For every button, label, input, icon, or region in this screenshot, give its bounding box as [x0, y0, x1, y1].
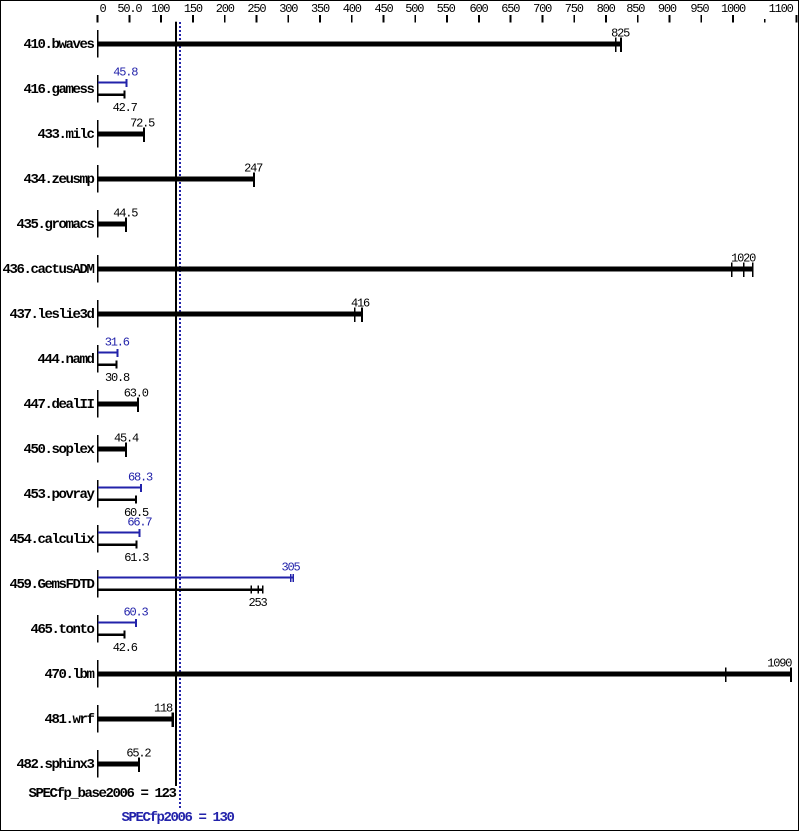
svg-text:450.soplex: 450.soplex: [23, 442, 95, 458]
svg-text:68.3: 68.3: [128, 471, 153, 485]
svg-text:470.lbm: 470.lbm: [44, 667, 94, 683]
svg-text:1100: 1100: [769, 2, 794, 16]
svg-text:650: 650: [501, 2, 520, 16]
svg-text:416.gamess: 416.gamess: [23, 82, 94, 98]
svg-text:800: 800: [597, 2, 616, 16]
row 435.gromacs: [97, 210, 127, 238]
svg-text:1020: 1020: [731, 251, 756, 265]
svg-text:550: 550: [437, 2, 456, 16]
svg-text:436.cactusADM: 436.cactusADM: [2, 262, 94, 278]
row 453.povray: [97, 480, 142, 508]
svg-text:100: 100: [151, 2, 170, 16]
svg-text:416: 416: [351, 296, 370, 310]
row 410.bwaves: [97, 30, 622, 58]
svg-text:200: 200: [216, 2, 235, 16]
svg-text:50.0: 50.0: [117, 2, 142, 16]
row 454.calculix: [97, 525, 141, 553]
svg-text:450: 450: [374, 2, 393, 16]
row 444.namd: [97, 345, 119, 373]
row 433.milc: [97, 120, 145, 148]
svg-text:481.wrf: 481.wrf: [44, 712, 94, 728]
svg-text:900: 900: [658, 2, 677, 16]
svg-text:453.povray: 453.povray: [23, 487, 95, 503]
svg-text:61.3: 61.3: [124, 551, 149, 565]
row 470.lbm: [97, 660, 792, 688]
svg-text:444.namd: 444.namd: [37, 352, 94, 368]
row 447.dealII: [97, 390, 139, 418]
svg-text:825: 825: [611, 26, 630, 40]
svg-text:700: 700: [533, 2, 552, 16]
svg-text:253: 253: [248, 596, 267, 610]
svg-text:350: 350: [311, 2, 330, 16]
row 436.cactusADM: [97, 255, 754, 283]
svg-text:434.zeusmp: 434.zeusmp: [23, 172, 94, 188]
base median reference line (123): [175, 22, 177, 786]
svg-text:30.8: 30.8: [105, 371, 130, 385]
svg-text:SPECfp_base2006 = 123: SPECfp_base2006 = 123: [28, 786, 176, 802]
svg-text:42.6: 42.6: [113, 641, 138, 655]
svg-text:459.GemsFDTD: 459.GemsFDTD: [9, 577, 94, 593]
svg-text:250: 250: [247, 2, 266, 16]
svg-text:437.leslie3d: 437.leslie3d: [9, 307, 94, 323]
svg-text:400: 400: [343, 2, 362, 16]
row 434.zeusmp: [97, 165, 255, 193]
svg-text:247: 247: [244, 161, 263, 175]
svg-text:950: 950: [690, 2, 709, 16]
svg-text:63.0: 63.0: [124, 386, 149, 400]
svg-text:SPECfp2006 = 130: SPECfp2006 = 130: [121, 810, 234, 826]
x-axis scale labels: [99, 2, 793, 16]
svg-text:447.dealII: 447.dealII: [23, 397, 94, 413]
svg-text:45.4: 45.4: [114, 431, 139, 445]
svg-text:31.6: 31.6: [105, 336, 130, 350]
row 450.soplex: [97, 435, 127, 463]
svg-text:66.7: 66.7: [127, 516, 152, 530]
row 482.sphinx3: [97, 750, 140, 778]
svg-text:410.bwaves: 410.bwaves: [23, 37, 94, 53]
svg-text:465.tonto: 465.tonto: [30, 622, 94, 638]
svg-text:65.2: 65.2: [126, 746, 151, 760]
row 459.GemsFDTD: [97, 570, 294, 598]
svg-text:850: 850: [626, 2, 645, 16]
svg-text:500: 500: [405, 2, 424, 16]
svg-text:45.8: 45.8: [113, 66, 138, 80]
svg-text:454.calculix: 454.calculix: [9, 532, 95, 548]
x-axis tick marks: [97, 15, 798, 23]
svg-text:435.gromacs: 435.gromacs: [16, 217, 94, 233]
svg-text:600: 600: [469, 2, 488, 16]
svg-text:300: 300: [279, 2, 298, 16]
svg-text:482.sphinx3: 482.sphinx3: [16, 757, 94, 773]
svg-text:150: 150: [184, 2, 203, 16]
row 416.gamess: [97, 75, 128, 103]
row 437.leslie3d: [97, 300, 363, 328]
svg-text:750: 750: [565, 2, 584, 16]
svg-text:72.5: 72.5: [130, 116, 155, 130]
svg-text:60.3: 60.3: [123, 606, 148, 620]
svg-text:42.7: 42.7: [113, 101, 138, 115]
svg-text:433.milc: 433.milc: [37, 127, 94, 143]
svg-text:44.5: 44.5: [113, 206, 138, 220]
svg-text:1090: 1090: [767, 656, 792, 670]
svg-text:0: 0: [99, 2, 106, 16]
svg-text:118: 118: [154, 701, 173, 715]
row 481.wrf: [97, 705, 174, 733]
svg-text:1000: 1000: [721, 2, 746, 16]
svg-text:305: 305: [281, 561, 300, 575]
row 465.tonto: [97, 615, 137, 643]
peak median dotted reference line (130): [179, 22, 181, 808]
